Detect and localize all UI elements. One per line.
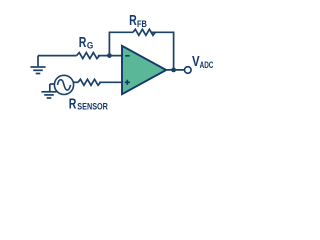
op-amp minus sign (125, 55, 129, 57)
feedback loop wire (up, across top, down to output node) (109, 32, 133, 55)
node junction dot (inverting input) (107, 53, 112, 58)
op-amp U1 (triangle) (122, 46, 166, 94)
output terminal (open circle) (185, 67, 192, 74)
wire RG to op-amp inverting input (98, 55, 122, 57)
resistor RFB (zigzag) (133, 29, 155, 35)
op-amp plus sign (125, 80, 130, 85)
svg-text:R: R (79, 35, 87, 51)
wire from ground to source (50, 83, 55, 85)
resistor RSENSOR (zigzag) (78, 79, 100, 85)
AC source VSENSOR (circle with sine) (54, 75, 73, 94)
svg-text:R: R (129, 13, 137, 29)
wire source to RSENSOR (73, 81, 78, 83)
svg-text:SENSOR: SENSOR (77, 101, 108, 111)
output wire (166, 69, 184, 71)
svg-text:G: G (87, 41, 93, 51)
svg-text:ADC: ADC (200, 60, 214, 70)
svg-text:FB: FB (137, 19, 147, 29)
sine wave (57, 80, 70, 90)
wire RSENSOR to op-amp non-inverting input (99, 81, 122, 83)
resistor RG (zigzag) (77, 53, 100, 59)
ground (lower left, at source) (41, 84, 56, 98)
wire from ground to RG (38, 55, 77, 57)
ground (left, at inverting input net) (30, 56, 45, 74)
svg-text:R: R (69, 96, 77, 112)
output junction dot (171, 68, 176, 73)
wire (152, 32, 174, 70)
